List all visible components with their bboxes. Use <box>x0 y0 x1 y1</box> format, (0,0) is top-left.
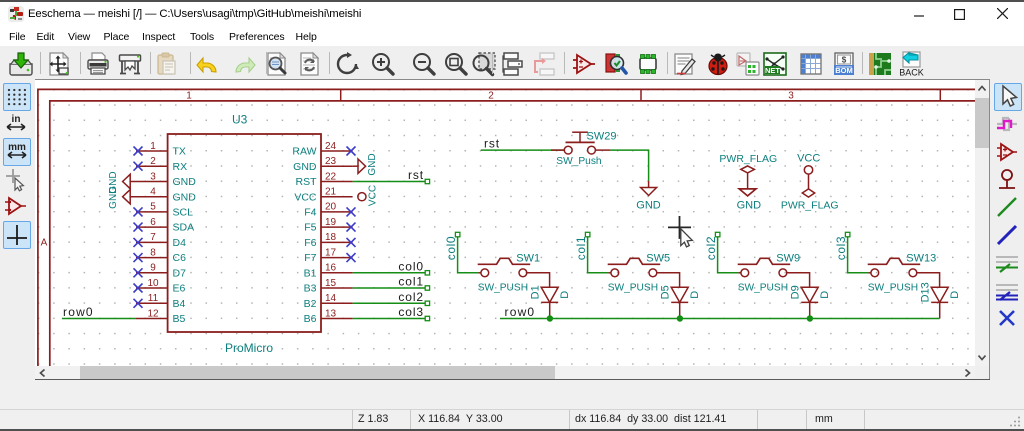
svg-text:GND: GND <box>108 187 119 209</box>
svg-text:SDA: SDA <box>173 222 195 234</box>
svg-text:F5: F5 <box>304 222 316 234</box>
unconnected wire end square (col3 column) <box>845 232 850 237</box>
wire col0 from pin 16 <box>353 272 426 274</box>
pin 13 B6 <box>321 318 353 320</box>
switch SW29 body <box>551 132 610 154</box>
wire col2 from pin 14 <box>353 302 426 304</box>
no-connect X on pin 1 <box>134 147 143 156</box>
svg-text:RST: RST <box>296 176 318 188</box>
svg-text:E6: E6 <box>173 283 186 295</box>
svg-text:22: 22 <box>325 171 337 182</box>
svg-text:col2: col2 <box>704 236 718 260</box>
svg-text:SW_PUSH: SW_PUSH <box>478 282 528 293</box>
unconnected wire end square (col3) <box>425 316 429 320</box>
svg-text:col1: col1 <box>574 236 588 260</box>
svg-text:ProMicro: ProMicro <box>225 341 273 355</box>
wire row0 (bottom) <box>500 318 940 320</box>
svg-text:12: 12 <box>147 308 159 319</box>
svg-text:SW_Push: SW_Push <box>556 156 601 167</box>
wire SW5 to diode D5 <box>657 273 680 288</box>
svg-text:D1: D1 <box>530 285 542 299</box>
pin 7 D4 <box>136 241 168 243</box>
svg-text:6: 6 <box>150 217 156 228</box>
switch SW9 body <box>738 258 791 276</box>
unconnected wire end square (col0 column) <box>455 232 460 237</box>
svg-text:4: 4 <box>150 187 156 198</box>
svg-text:VCC: VCC <box>367 185 378 206</box>
wire col2 column <box>718 237 739 273</box>
no-connect X on pin 19 <box>347 223 356 232</box>
pin 15 B3 <box>321 287 353 289</box>
svg-text:BACK: BACK <box>899 68 924 78</box>
svg-text:GND: GND <box>636 199 661 211</box>
sheet frame outer border <box>38 89 975 366</box>
svg-text:1: 1 <box>150 141 156 152</box>
svg-text:B2: B2 <box>304 298 317 310</box>
ground symbol on pin 4 <box>123 190 131 204</box>
svg-text:D: D <box>819 291 831 299</box>
svg-text:11: 11 <box>148 293 159 304</box>
no-connect X on pin 20 <box>347 207 356 216</box>
menu bar <box>0 25 1024 46</box>
svg-text:col3: col3 <box>834 236 848 260</box>
svg-text:RX: RX <box>173 161 188 173</box>
diode D13 <box>931 287 948 318</box>
junction col2/row0 <box>807 315 813 321</box>
unconnected wire end square (col2) <box>425 301 429 305</box>
cursor crosshair <box>668 216 691 239</box>
svg-text:D13: D13 <box>920 282 932 302</box>
svg-text:row0: row0 <box>63 305 94 319</box>
unconnected wire end square (col1 column) <box>585 232 590 237</box>
unconnected wire end square (col1) <box>425 286 429 290</box>
svg-text:21: 21 <box>325 187 337 198</box>
svg-text:rst: rst <box>484 137 500 151</box>
pin 24 RAW <box>321 150 353 152</box>
no-connect X on pin 8 <box>134 253 143 262</box>
switch SW1 body <box>478 258 531 276</box>
pin 9 D7 <box>136 272 168 274</box>
ground symbol on pin 3 <box>123 174 131 188</box>
no-connect X on pin 10 <box>134 284 143 293</box>
frame column tick 1/2 <box>340 89 342 101</box>
svg-text:24: 24 <box>325 141 337 152</box>
svg-text:SCL: SCL <box>173 207 194 219</box>
svg-text:D7: D7 <box>173 267 187 279</box>
no-connect X on pin 5 <box>134 207 143 216</box>
svg-text:15: 15 <box>325 278 337 289</box>
svg-text:D: D <box>689 291 701 299</box>
svg-text:B6: B6 <box>304 313 317 325</box>
svg-text:SW29: SW29 <box>587 131 617 143</box>
sheet frame inner border <box>50 101 975 366</box>
wire col1 from pin 15 <box>353 287 426 289</box>
power flag symbol (on VCC) <box>802 189 814 197</box>
ground symbol on pin 23 <box>353 165 358 167</box>
main area <box>0 79 1024 380</box>
svg-text:B3: B3 <box>304 283 317 295</box>
svg-text:3: 3 <box>788 91 794 102</box>
svg-text:GND: GND <box>173 176 197 188</box>
svg-text:NET: NET <box>765 66 780 75</box>
svg-text:col1: col1 <box>398 275 424 289</box>
svg-text:8: 8 <box>150 247 156 258</box>
wire rst from pin 22 <box>353 181 426 183</box>
svg-text:in: in <box>12 114 21 125</box>
mouse pointer <box>681 229 693 247</box>
wire SW9 to diode D9 <box>787 273 810 288</box>
svg-text:SW_PUSH: SW_PUSH <box>608 282 658 293</box>
svg-text:A: A <box>41 238 48 249</box>
pin 6 SDA <box>136 226 168 228</box>
svg-text:10: 10 <box>147 278 159 289</box>
svg-text:2: 2 <box>150 156 156 167</box>
svg-text:SW9: SW9 <box>776 252 800 264</box>
svg-text:VCC: VCC <box>294 191 317 203</box>
svg-text:5: 5 <box>150 202 156 213</box>
no-connect X on pin 18 <box>347 238 356 247</box>
svg-text:GND: GND <box>293 161 317 173</box>
svg-text:col0: col0 <box>398 259 424 273</box>
diode D1 <box>541 287 558 318</box>
svg-text:D: D <box>559 291 571 299</box>
unconnected wire end square (col2 column) <box>715 232 720 237</box>
wire SW13 to diode D13 <box>917 273 940 288</box>
frame column tick 3/4 <box>939 89 941 101</box>
svg-text:F6: F6 <box>304 237 316 249</box>
ground symbol GND (PWR_FLAG) <box>739 189 756 196</box>
pin 10 E6 <box>136 287 168 289</box>
diode D9 <box>801 287 818 318</box>
pin 20 F4 <box>321 211 353 213</box>
junction col1/row0 <box>677 315 683 321</box>
svg-text:18: 18 <box>325 232 337 243</box>
svg-text:7: 7 <box>150 232 156 243</box>
svg-text:PWR_FLAG: PWR_FLAG <box>781 199 839 211</box>
pin 5 SCL <box>136 211 168 213</box>
wire col0 column <box>458 237 479 273</box>
pin 3 GND (with GND power symbol) <box>130 181 167 183</box>
wire col3 column <box>848 237 869 273</box>
diode D5 <box>671 287 688 318</box>
status bar <box>0 380 1024 431</box>
no-connect X on pin 2 <box>134 162 143 171</box>
pin 8 C6 <box>136 257 168 259</box>
pin 4 GND (with GND power symbol) <box>130 196 167 198</box>
svg-text:3: 3 <box>150 171 156 182</box>
svg-text:SW_PUSH: SW_PUSH <box>868 282 918 293</box>
pin 16 B1 <box>321 272 353 274</box>
svg-text:2: 2 <box>488 91 494 102</box>
svg-text:row0: row0 <box>505 305 536 319</box>
switch SW5 body <box>608 258 661 276</box>
no-connect X on pin 24 <box>347 147 356 156</box>
svg-text:U3: U3 <box>232 113 248 127</box>
pin 2 RX <box>136 165 168 167</box>
svg-text:F7: F7 <box>304 252 316 264</box>
svg-text:23: 23 <box>325 156 337 167</box>
svg-text:D4: D4 <box>173 237 187 249</box>
svg-text:rst: rst <box>408 168 424 182</box>
wire SW1 to diode D1 <box>527 273 550 288</box>
svg-text:D9: D9 <box>790 285 802 299</box>
svg-text:F4: F4 <box>304 207 316 219</box>
svg-text:col0: col0 <box>444 236 458 260</box>
wire col3 from pin 13 <box>353 318 426 320</box>
pin 18 F6 <box>321 241 353 243</box>
svg-text:13: 13 <box>325 308 337 319</box>
junction col0/row0 <box>547 315 553 321</box>
pin 12 B5 <box>136 318 168 320</box>
svg-text:19: 19 <box>325 217 337 228</box>
svg-text:SW1: SW1 <box>516 252 540 264</box>
svg-text:17: 17 <box>325 247 337 258</box>
no-connect X on pin 6 <box>134 223 143 232</box>
svg-text:TX: TX <box>173 146 186 158</box>
wire rst to SW29 <box>481 149 565 151</box>
svg-text:GND: GND <box>173 191 197 203</box>
pin 14 B2 <box>321 302 353 304</box>
svg-text:B1: B1 <box>304 267 317 279</box>
pin 19 F5 <box>321 226 353 228</box>
svg-text:VCC: VCC <box>797 152 820 164</box>
pin 23 GND <box>321 165 353 167</box>
pin 22 RST <box>321 181 353 183</box>
svg-text:B4: B4 <box>173 298 186 310</box>
switch SW13 body <box>868 258 921 276</box>
wire row0 to pin 12 <box>62 318 136 320</box>
svg-text:9: 9 <box>150 263 156 274</box>
svg-text:C6: C6 <box>173 252 187 264</box>
svg-text:GND: GND <box>367 153 378 175</box>
ground symbol GND (below SW29) <box>641 181 657 196</box>
svg-text:SW_PUSH: SW_PUSH <box>738 282 788 293</box>
pin 1 TX <box>136 150 168 152</box>
no-connect X on pin 11 <box>134 299 143 308</box>
frame column tick 2/3 <box>640 89 642 101</box>
top toolbar <box>0 46 1024 79</box>
unconnected wire end square (col0) <box>425 271 429 275</box>
pin 21 VCC <box>321 196 353 198</box>
no-connect X on pin 9 <box>134 268 143 277</box>
wire SW29 to GND <box>610 150 648 181</box>
svg-text:mm: mm <box>8 142 26 153</box>
svg-text:SW13: SW13 <box>906 252 936 264</box>
svg-text:20: 20 <box>325 202 337 213</box>
svg-text:D5: D5 <box>660 285 672 299</box>
unconnected wire end square (rst) <box>425 179 429 183</box>
component U3 body <box>168 134 321 332</box>
svg-text:col3: col3 <box>398 305 424 319</box>
svg-text:$: $ <box>842 56 847 65</box>
no-connect X on pin 7 <box>134 238 143 247</box>
power symbol VCC on pin 21 <box>358 193 366 201</box>
wire col1 column <box>588 237 609 273</box>
pin 17 F7 <box>321 257 353 259</box>
svg-text:1: 1 <box>186 91 192 102</box>
svg-text:D: D <box>949 291 961 299</box>
svg-text:PWR_FLAG: PWR_FLAG <box>719 153 777 165</box>
svg-text:B5: B5 <box>173 313 186 325</box>
svg-text:col2: col2 <box>398 290 424 304</box>
svg-text:SW5: SW5 <box>646 252 670 264</box>
pin 11 B4 <box>136 302 168 304</box>
title bar <box>0 0 1024 25</box>
svg-text:14: 14 <box>325 293 337 304</box>
svg-text:RAW: RAW <box>292 146 316 158</box>
svg-text:GND: GND <box>737 199 762 211</box>
svg-text:16: 16 <box>325 263 337 274</box>
no-connect X on pin 17 <box>347 253 356 262</box>
